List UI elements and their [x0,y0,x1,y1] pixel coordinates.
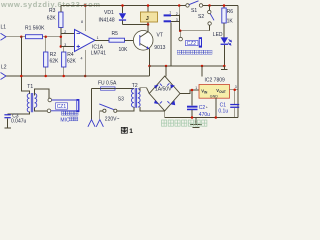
diode VD1 IN4148 [99,6,127,25]
svg-text:62K: 62K [50,58,60,64]
node op-amp power junction (85.2,5.5) [84,4,87,7]
svg-text:0.1u: 0.1u [218,109,228,115]
svg-text:3: 3 [64,43,66,47]
wire T1 secondary bottom to CZ1 [35,107,48,110]
node C2 top junction [191,89,194,92]
node collector junction (148,24.5) [147,23,150,26]
resistor R4 62K [62,52,77,67]
node op-amp gnd junction (85.2,76) [84,75,87,78]
wire R4 bottom to mid rail [63,67,65,76]
svg-text:GND: GND [210,95,218,99]
svg-text:R3: R3 [49,8,56,14]
svg-text:4: 4 [81,57,83,61]
node IC2 gnd junction [215,116,218,119]
node D junction (61,46.5) [60,45,63,48]
svg-text:CZ2: CZ2 [187,41,197,47]
wire op-amp V+ pin 8 to +9V rail [84,6,86,32]
node VD1 rail junction [121,4,124,7]
node bridge plus junction (166,66) [165,65,168,68]
wire S2 to CZ2 node (y=30.7) [180,30,209,32]
wire VD1 to collector node [123,24,149,26]
wire IC2 gnd pin [215,98,217,117]
svg-text:J: J [146,16,149,22]
wire gnd bottom rail (y=117.5) [165,117,238,119]
resistor R1 560K [25,26,45,39]
ground at C3 [4,127,10,129]
svg-text:T2: T2 [132,83,138,89]
node CZ2 rail junction [178,4,181,7]
node C junction (61,36.7) [60,35,63,38]
wire R3 top to +9V rail [60,6,62,13]
label CZ1 mic note [62,111,78,115]
wire DC minus rail (y=66) [150,65,225,67]
capacitor C1 0.1u [218,90,239,118]
wire bridge plus riser [165,66,167,77]
svg-text:C1: C1 [220,102,227,108]
node R6 rail junction [223,4,226,7]
node A junction (21.3,36.7) [20,35,23,38]
svg-text:LED: LED [213,32,223,38]
svg-text:S1: S1 [191,8,197,14]
wire emitter to mid rail corner [149,66,151,76]
svg-text:L1: L1 [1,25,7,31]
wire op-amp pin3 input (y=46.5) [61,46,75,48]
svg-text:62K: 62K [67,58,77,64]
node relay rail junction [147,4,150,7]
wire node B down to R2 [45,37,47,52]
wire L1 input (y=36.7) [6,36,61,38]
resistor R5 10K [109,31,128,53]
svg-text:CZ1: CZ1 [57,104,67,110]
wire T2 secondary bottom to bridge AC bottom [140,107,165,111]
node L2 terminal [1,64,7,79]
svg-text:1: 1 [97,36,99,40]
svg-text:470u: 470u [199,112,210,118]
node rail junction (63.7,76) [62,75,64,78]
svg-text:VT: VT [157,32,163,38]
svg-text:9013: 9013 [154,45,165,51]
resistor R6 1K [222,6,234,25]
wire op-amp V- pin 4 to mid rail [84,50,86,76]
wire +9V top rail (y=5.5) [61,5,186,7]
node C2 bottom junction [191,116,194,119]
svg-text:R1 560K: R1 560K [25,26,45,32]
op-amp U1 IC1A LM741 [75,30,107,57]
wire IC2 input tap stub [201,66,203,77]
svg-text:1K: 1K [227,19,234,25]
node L1 terminal [1,25,7,41]
svg-text:2: 2 [64,30,66,34]
svg-text:R4: R4 [67,52,74,58]
capacitor C3 0.047u [4,113,26,127]
svg-text:IN4148: IN4148 [99,18,115,24]
transistor Q1 VT 9013 [133,25,165,67]
wire T1 primary bottom to C3 [8,112,30,114]
regulator IC2 7809 [199,77,230,98]
AC plug prongs 220V [88,116,120,127]
svg-text:1A/50V: 1A/50V [155,87,172,93]
resistor R2 62K [44,52,59,67]
resistor R3 62K [47,8,63,28]
svg-text:MIC: MIC [60,117,70,123]
svg-text:C2: C2 [199,105,206,111]
svg-text:0.047u: 0.047u [11,118,27,124]
node IC2 input tap junction (202,66) [201,65,204,68]
transformer T2 [132,83,141,108]
svg-text:3: 3 [235,85,237,89]
watermark bottom [162,120,207,126]
node LED bottom junction (224.3,66) [223,65,226,68]
switch S2 [198,6,214,31]
svg-text:VD1: VD1 [104,10,114,16]
ground at LED node [221,66,228,69]
svg-text:8: 8 [81,20,83,24]
svg-text:FU 0.5A: FU 0.5A [98,80,117,86]
svg-text:R5: R5 [112,31,119,37]
wire IC2 out to right edge [230,89,239,91]
svg-text:3: 3 [176,18,178,22]
wire R4 top stub [63,47,65,53]
wire right edge +9V riser [237,6,239,118]
wire op-amp pin2 input (y=33.5) [61,33,75,35]
fuse FU 0.5A [92,80,134,90]
caption figure 1 [121,127,133,135]
wire R3 bottom node vertical [60,28,62,47]
jack CZ2 contacts [164,6,180,31]
svg-text:1: 1 [195,86,197,90]
ground main symbol [190,118,202,128]
svg-text:1: 1 [129,128,133,134]
node rail junction (45.7,76) [44,75,47,78]
wire bridge right to IC2 input [180,90,199,94]
svg-text:S2: S2 [198,14,204,20]
node C1 top junction [233,88,236,91]
svg-text:T1: T1 [27,84,33,90]
socket CZ1 [47,98,79,112]
svg-text:R6: R6 [227,9,234,15]
svg-text:2: 2 [176,12,178,16]
wire mid rail (y=76) [6,75,150,77]
node rail junction (21.3,76) [20,75,23,78]
node B junction (45.7,36.7) [44,35,47,38]
label CZ2 output note [177,50,212,54]
node emitter junction (150,66) [148,65,151,68]
wire jack sleeve down to minus rail [170,22,172,66]
svg-text:IC2 7809: IC2 7809 [205,77,226,83]
wire T2 secondary top to bridge AC left [140,88,146,91]
svg-text:10K: 10K [119,47,129,53]
wire op-amp output pin1 [95,39,109,41]
relay J coil [141,6,158,25]
wire left AC prong riser to fuse [91,89,93,120]
svg-text:+: + [206,106,208,110]
node CZ2 junction (180.2,30.7) [179,29,182,32]
wire S3 to right AC prong [100,111,103,120]
LED [213,23,232,66]
svg-text:LM741: LM741 [91,51,107,57]
svg-text:R2: R2 [50,52,57,58]
wire R5 to base [125,39,140,41]
bridge rectifier 1A/50V [149,76,180,111]
svg-text:220V~: 220V~ [105,116,120,122]
svg-text:S3: S3 [118,96,124,102]
svg-text:62K: 62K [47,15,57,21]
wire bridge bottom to gnd rail [164,111,166,118]
switch S1 [186,1,203,14]
svg-text:L2: L2 [1,64,7,70]
svg-text:IC1A: IC1A [92,44,104,50]
svg-text:1: 1 [169,10,171,14]
wire node A down to mid rail [21,37,29,94]
transformer T1 [27,84,37,112]
capacitor C2 470u [187,90,210,118]
wire R2 bottom to mid rail [45,67,47,76]
node S2 rail junction [208,4,211,7]
switch S3 [99,96,124,112]
socket CZ2 [179,31,202,48]
wire T2 primary bottom to S3 [117,107,134,111]
wire T1 secondary top to CZ1 [35,89,49,98]
